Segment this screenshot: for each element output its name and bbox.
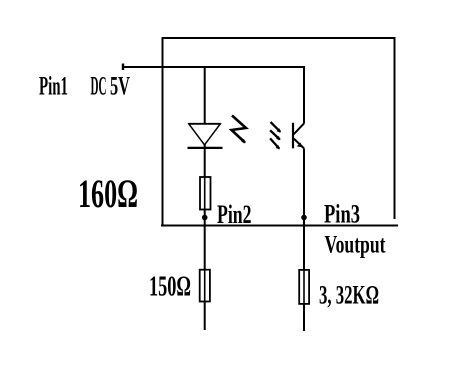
svg-text:150Ω: 150Ω: [149, 271, 191, 302]
svg-text:Pin3: Pin3: [324, 199, 360, 228]
resistor R3 3.32K ohm body: [299, 270, 309, 304]
LED light emission arrows: [232, 116, 247, 144]
LED D1 (emitter diode of optocoupler): [188, 124, 223, 148]
resistor R2 150 ohm body: [200, 270, 210, 302]
wire: rail corner down to phototransistor collector: [303, 66, 305, 124]
net label DC 5V: [91, 72, 131, 101]
wire: Pin1 DC 5V supply rail: [123, 64, 305, 71]
light arrows into phototransistor: [270, 122, 281, 149]
svg-text:Voutput: Voutput: [325, 232, 386, 259]
phototransistor Q1: [293, 123, 304, 149]
resistor R1 160 ohm body: [200, 177, 211, 210]
svg-text:Pin2: Pin2: [217, 200, 252, 229]
optocoupler package outline U1: [161, 38, 398, 226]
svg-text:DC: DC: [91, 72, 107, 101]
wire: R2 lower lead: [204, 302, 206, 331]
svg-text:160Ω: 160Ω: [78, 171, 138, 216]
junction dot Pin2: [202, 215, 208, 221]
svg-text:Pin1: Pin1: [39, 72, 68, 101]
svg-text:3, 32KΩ: 3, 32KΩ: [319, 279, 379, 309]
svg-text:5V: 5V: [110, 72, 130, 101]
wire: R3 lower lead: [303, 304, 305, 331]
wire: LED anode: [204, 66, 206, 124]
wire: R1 to Pin2 lead: [204, 210, 206, 271]
wire: emitter to Pin3 lead: [303, 148, 305, 270]
junction dot Pin3: [301, 215, 307, 221]
wire: LED cathode to resistor R1: [204, 144, 206, 178]
